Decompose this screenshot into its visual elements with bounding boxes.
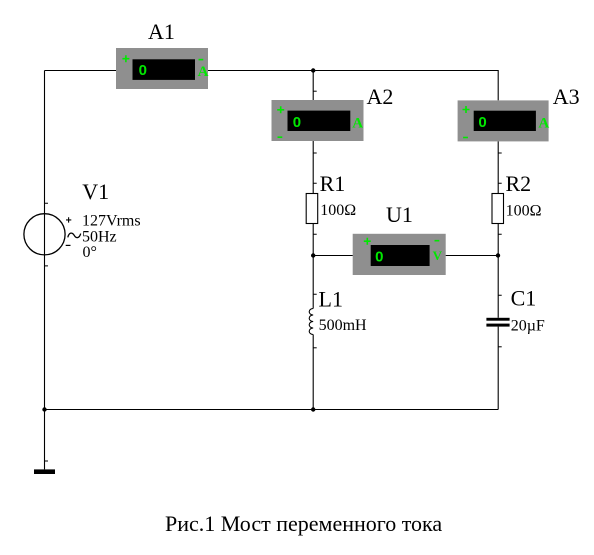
value 50Hz xyxy=(82,229,117,246)
wire U1 left xyxy=(313,255,353,257)
node junction bottom middle xyxy=(311,407,315,411)
wire top-left segment xyxy=(45,70,117,72)
svg-text:0: 0 xyxy=(139,62,147,79)
junction dot left bottom xyxy=(42,407,46,411)
ammeter A3 xyxy=(458,100,550,141)
wire bottom xyxy=(45,409,499,411)
svg-text:100Ω: 100Ω xyxy=(320,202,356,219)
capacitor C1 xyxy=(486,318,509,327)
label U1 xyxy=(386,202,413,227)
ammeter A1 xyxy=(116,48,209,89)
label A2 xyxy=(367,84,394,109)
svg-text:C1: C1 xyxy=(511,285,537,310)
label A1 xyxy=(148,19,175,44)
svg-text:0: 0 xyxy=(375,248,383,265)
ammeter A2 xyxy=(272,100,364,141)
value 127Vrms xyxy=(82,213,141,230)
label C1 xyxy=(511,285,537,310)
svg-text:100Ω: 100Ω xyxy=(506,203,542,220)
svg-text:L1: L1 xyxy=(319,286,343,311)
svg-text:0: 0 xyxy=(293,114,301,131)
svg-text:R2: R2 xyxy=(506,171,532,196)
wire U1 right xyxy=(446,255,498,257)
svg-text:U1: U1 xyxy=(386,202,413,227)
resistor R2 xyxy=(492,194,504,224)
value R2 100ohm xyxy=(506,203,542,220)
wire right branch A3 to R2 xyxy=(498,141,502,193)
label L1 xyxy=(319,286,343,311)
svg-text:A: A xyxy=(352,116,363,132)
svg-text:V1: V1 xyxy=(82,179,109,204)
svg-text:R1: R1 xyxy=(320,171,346,196)
caption xyxy=(165,511,442,536)
value C1 20uF xyxy=(511,318,545,335)
value R1 100ohm xyxy=(320,202,356,219)
svg-text:A2: A2 xyxy=(367,84,394,109)
wire middle branch upper xyxy=(313,71,317,101)
label R2 xyxy=(506,171,532,196)
wire middle branch A2 to R1 xyxy=(313,141,317,194)
resistor R1 xyxy=(306,194,318,224)
svg-text:A3: A3 xyxy=(553,84,580,109)
voltmeter U1 xyxy=(353,234,446,275)
label R1 xyxy=(320,171,346,196)
label A3 xyxy=(553,84,580,109)
node junction top middle xyxy=(311,68,315,72)
svg-text:0: 0 xyxy=(478,114,486,131)
wire right branch C1 to bottom corner xyxy=(498,327,502,410)
value L1 500mH xyxy=(319,317,367,334)
svg-text:500mH: 500mH xyxy=(319,317,367,334)
svg-text:A: A xyxy=(538,116,549,132)
svg-text:20µF: 20µF xyxy=(511,318,545,335)
svg-text:A1: A1 xyxy=(148,19,175,44)
ground xyxy=(34,469,55,474)
svg-text:A: A xyxy=(198,64,209,80)
wire left vertical xyxy=(45,71,49,470)
inductor L1 xyxy=(309,309,313,335)
wire right branch R2 to C1 xyxy=(498,224,502,318)
svg-text:127Vrms: 127Vrms xyxy=(82,213,141,230)
source V1 xyxy=(24,214,81,255)
node junction right U1 xyxy=(496,253,500,257)
svg-text:V: V xyxy=(433,248,443,263)
wire top-right segment with corner to A3 xyxy=(208,71,498,101)
wire middle branch L1 to bottom xyxy=(313,335,317,410)
node junction middle U1 left xyxy=(311,253,315,257)
wire middle branch R1 to L1 xyxy=(313,224,317,309)
svg-text:Рис.1 Мост переменного тока: Рис.1 Мост переменного тока xyxy=(165,511,442,536)
value 0deg xyxy=(83,244,97,261)
label V1 xyxy=(82,179,109,204)
svg-text:0°: 0° xyxy=(83,244,97,261)
